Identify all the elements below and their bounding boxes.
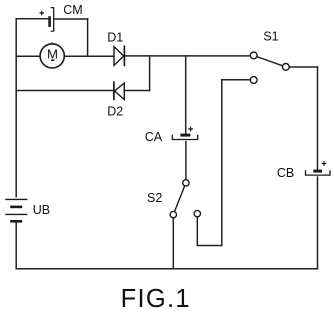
svg-text:M: M bbox=[47, 46, 58, 61]
svg-text:CA: CA bbox=[145, 130, 163, 144]
svg-text:S2: S2 bbox=[147, 191, 162, 205]
svg-text:CB: CB bbox=[277, 166, 294, 180]
svg-text:S1: S1 bbox=[263, 30, 278, 44]
svg-text:FIG.1: FIG.1 bbox=[121, 285, 191, 313]
svg-text:CM: CM bbox=[63, 3, 82, 17]
svg-text:D1: D1 bbox=[107, 30, 123, 44]
svg-text:UB: UB bbox=[33, 203, 50, 217]
svg-text:D2: D2 bbox=[107, 105, 123, 119]
